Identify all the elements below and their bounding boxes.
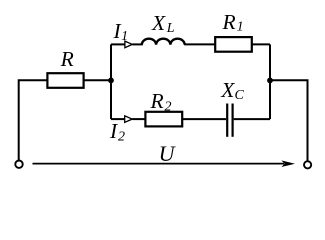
- wire: arrow I2 to resistor R2: [132, 118, 145, 120]
- svg-text:XL: XL: [151, 11, 175, 36]
- node: right junction dot: [267, 78, 273, 84]
- wire: resistor R2 to capacitor XC: [183, 118, 226, 120]
- svg-text:U: U: [159, 141, 177, 166]
- wire: resistor R1 to right branch corner: [252, 43, 270, 45]
- wire: left branch vertical between top and bottom branches: [110, 44, 112, 119]
- wire: top branch start to arrow I1: [111, 43, 125, 45]
- wire: bottom branch start to arrow I2: [111, 118, 125, 120]
- svg-text:R: R: [60, 47, 74, 71]
- resistor R2: [145, 112, 182, 127]
- svg-text:I2: I2: [109, 119, 125, 145]
- wire: inductor to resistor R1: [184, 43, 215, 45]
- voltage arrow U head: [281, 160, 295, 167]
- terminal: left circle: [15, 161, 22, 168]
- terminal: right circle: [304, 161, 311, 168]
- resistor R1: [215, 37, 252, 52]
- wire: right node to right terminal: [270, 80, 308, 161]
- inductor XL coil: [142, 39, 185, 45]
- voltage arrow U line: [33, 163, 285, 165]
- capacitor XC left plate: [226, 104, 228, 137]
- arrow I2 (open triangle current arrow): [125, 116, 133, 123]
- wire: left vertical from terminal up to corner and to resistor R: [19, 80, 47, 160]
- wire: capacitor XC to right branch corner: [234, 118, 270, 120]
- arrow I1 (open triangle current arrow): [125, 41, 132, 48]
- svg-text:XC: XC: [220, 78, 244, 103]
- svg-text:I1: I1: [113, 19, 129, 44]
- wire: arrow I1 to inductor: [132, 43, 143, 45]
- svg-text:R2: R2: [150, 89, 172, 115]
- capacitor XC right plate: [232, 104, 234, 137]
- wire: right branch vertical between top and bottom branches: [269, 44, 271, 119]
- resistor R: [47, 73, 83, 88]
- svg-text:R1: R1: [222, 10, 244, 34]
- node: left junction dot: [108, 78, 114, 84]
- wire: resistor R to left node: [85, 79, 112, 81]
